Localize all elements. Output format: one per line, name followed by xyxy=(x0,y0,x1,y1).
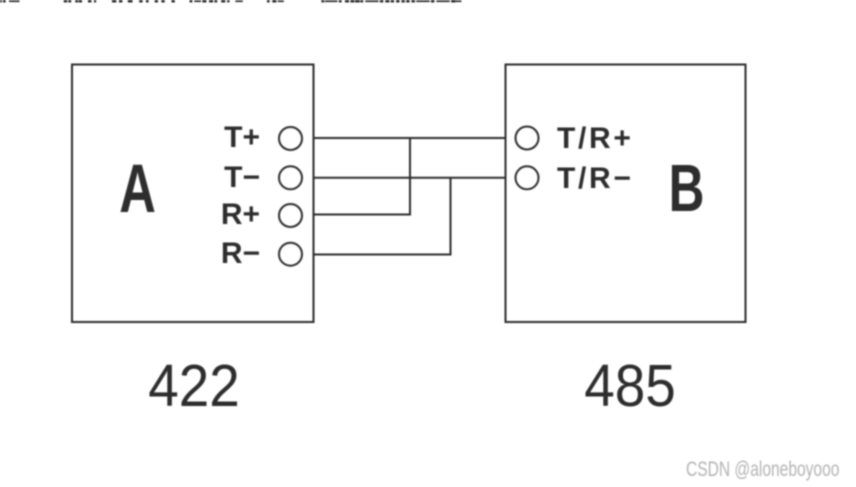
pin R+ circle xyxy=(279,204,302,227)
label T/R- xyxy=(557,164,634,194)
label T+ xyxy=(224,123,260,153)
device A box xyxy=(72,65,314,323)
label T/R+ xyxy=(557,124,634,154)
pin T/R- circle xyxy=(516,166,539,189)
pin R- circle xyxy=(279,243,302,266)
label R- xyxy=(221,239,260,269)
label R+ xyxy=(221,200,260,230)
pin T/R+ circle xyxy=(516,127,539,150)
label 485 xyxy=(562,357,698,416)
wire T+ to T/R+ xyxy=(314,137,506,139)
wire R- vertical join to T- net xyxy=(450,178,452,256)
device label B xyxy=(659,155,715,222)
wire T- to T/R- xyxy=(314,177,506,179)
pin T- circle xyxy=(279,166,302,189)
wire R- horizontal xyxy=(314,254,451,256)
label 422 xyxy=(126,357,262,416)
pin T+ circle xyxy=(279,127,302,150)
device label A xyxy=(110,155,166,224)
label T- xyxy=(224,163,260,193)
clipped caption line (top, mostly cut off) xyxy=(0,0,465,10)
wire R+ horizontal xyxy=(314,214,411,216)
watermark CSDN xyxy=(686,459,839,481)
device B box xyxy=(506,65,746,323)
wire R+ vertical join to T+ net xyxy=(409,138,411,216)
